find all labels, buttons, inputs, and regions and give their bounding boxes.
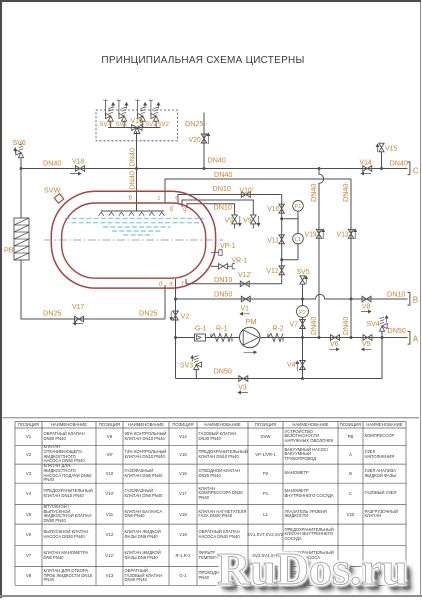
svg-text:DN40: DN40 xyxy=(127,171,136,189)
wire: second DN40 line from node c to V13 branch xyxy=(165,179,351,204)
valve V4 xyxy=(300,361,306,370)
svg-text:DN40: DN40 xyxy=(341,184,350,202)
svg-text:DN40: DN40 xyxy=(341,317,350,335)
valve V5 xyxy=(363,335,372,341)
svg-text:B: B xyxy=(413,296,418,305)
spray header inside tank xyxy=(101,210,164,212)
outer jacket burst device SVW xyxy=(54,194,64,204)
svg-text:DN40: DN40 xyxy=(208,156,226,165)
svg-text:P2: P2 xyxy=(299,310,306,316)
svg-text:SV6: SV6 xyxy=(13,140,26,147)
tank inner vessel xyxy=(62,203,206,278)
svg-text:V19: V19 xyxy=(305,232,317,239)
sheet border top xyxy=(0,0,421,2)
svg-text:SV2: SV2 xyxy=(145,122,157,128)
node A off-page connector xyxy=(408,332,410,345)
svg-text:V4: V4 xyxy=(287,362,296,369)
wire: DN50 sampling line V1 to node B xyxy=(176,294,408,299)
drawing title xyxy=(0,55,414,66)
svg-text:A: A xyxy=(413,335,419,344)
pressure gauge P1 xyxy=(293,201,304,212)
wire: P1/L1 instrument branch xyxy=(282,211,298,260)
svg-text:PB: PB xyxy=(4,246,14,255)
svg-text:DN10: DN10 xyxy=(214,203,232,212)
svg-text:V7: V7 xyxy=(290,322,299,329)
valve V13 xyxy=(348,229,354,238)
tank centerline xyxy=(44,239,223,241)
wire: node b dip tube into tank xyxy=(136,169,138,212)
svg-text:V8: V8 xyxy=(362,303,371,310)
svg-text:SV1: SV1 xyxy=(116,122,128,128)
svg-text:DN50: DN50 xyxy=(388,326,406,335)
vacuum valve VR-1 xyxy=(211,265,218,267)
sheet border left xyxy=(0,0,2,598)
svg-text:g: g xyxy=(183,207,186,213)
svg-text:DN50: DN50 xyxy=(214,366,232,375)
safety valve SV6 xyxy=(16,150,24,158)
svg-text:b: b xyxy=(129,195,133,201)
pump PM xyxy=(240,327,260,347)
svg-text:DN40: DN40 xyxy=(214,170,232,179)
svg-text:SV4: SV4 xyxy=(367,321,380,328)
valve V2 xyxy=(173,311,179,320)
wire: node gprime trycock line to V9prime xyxy=(182,200,253,215)
wire: P2/V7 gauge riser with SV5 stub xyxy=(302,284,304,379)
svg-text:DN25: DN25 xyxy=(43,309,61,318)
safety valve SV3 xyxy=(194,362,202,370)
svg-text:V3: V3 xyxy=(238,384,247,391)
svg-text:V12: V12 xyxy=(266,268,278,275)
svg-text:DN50: DN50 xyxy=(214,290,232,299)
safety valve SV2 xyxy=(142,121,144,127)
svg-text:DN40: DN40 xyxy=(309,317,318,335)
svg-text:DN10: DN10 xyxy=(214,275,232,284)
sheet border right xyxy=(420,2,421,597)
svg-text:V12': V12' xyxy=(238,272,252,279)
svg-text:V1: V1 xyxy=(241,306,250,313)
svg-text:DN40: DN40 xyxy=(309,184,318,202)
wire: V9 drain stub xyxy=(234,224,236,229)
svg-text:V20: V20 xyxy=(189,137,201,144)
svg-text:DN25: DN25 xyxy=(185,119,203,128)
svg-text:DN10: DN10 xyxy=(387,289,405,298)
safety valve SV1 xyxy=(123,121,125,127)
gauge valve V7 xyxy=(300,320,306,329)
valve V6 xyxy=(331,335,340,341)
svg-text:VP-1: VP-1 xyxy=(220,243,236,250)
svg-text:V10: V10 xyxy=(267,206,279,213)
svg-text:VR-1: VR-1 xyxy=(232,257,248,264)
svg-text:V18: V18 xyxy=(72,159,84,166)
valve V8 xyxy=(362,296,371,302)
svg-text:SVW: SVW xyxy=(44,186,61,195)
svg-text:V13: V13 xyxy=(337,232,349,239)
valve V12prime xyxy=(240,281,249,287)
valve V19 xyxy=(316,229,322,238)
separator line above table xyxy=(2,417,419,419)
svg-text:V5: V5 xyxy=(362,341,371,348)
svg-text:DN25: DN25 xyxy=(139,309,157,318)
svg-text:R-1: R-1 xyxy=(216,326,227,333)
svg-text:DN40: DN40 xyxy=(127,148,136,166)
safety valve V15 xyxy=(379,143,384,152)
wire: bottom bypass line xyxy=(176,338,383,379)
wire: pump suction/discharge header xyxy=(176,337,408,339)
svg-text:V9': V9' xyxy=(243,217,253,224)
svg-text:a: a xyxy=(169,281,173,287)
valve V20 xyxy=(201,134,207,143)
three-way valve V16 xyxy=(132,125,142,131)
svg-text:d: d xyxy=(159,281,162,287)
wire: node f liquid-phase line xyxy=(185,279,187,284)
svg-text:SV2': SV2' xyxy=(158,122,171,128)
wire: SV4 relief stub xyxy=(381,331,383,337)
svg-text:DN10: DN10 xyxy=(213,184,231,193)
node C off-page connector xyxy=(408,162,410,175)
safety valve SV2' xyxy=(155,121,157,127)
wire: node a pump suction drop leg xyxy=(175,279,177,379)
svg-text:V16: V16 xyxy=(131,118,143,125)
valve V17 xyxy=(75,316,84,322)
svg-text:V9: V9 xyxy=(225,217,234,224)
wire: SV3 relief stub xyxy=(195,369,197,379)
wire: main DN40 header xyxy=(21,168,408,170)
svg-text:e: e xyxy=(175,195,179,201)
valve V11 xyxy=(279,235,285,244)
vacuum port VP-1 xyxy=(211,250,222,256)
svg-text:G-1: G-1 xyxy=(195,326,207,333)
safety valve SVT xyxy=(110,121,112,127)
svg-text:V17: V17 xyxy=(72,304,84,311)
svg-text:SV5: SV5 xyxy=(297,269,310,276)
svg-text:SVT: SVT xyxy=(100,122,112,128)
flexible joint R-1 xyxy=(211,334,234,342)
svg-text:V6: V6 xyxy=(330,341,339,348)
svg-text:V15: V15 xyxy=(385,146,397,153)
table grid xyxy=(15,422,406,586)
wire: V13 drop leg xyxy=(350,179,352,338)
trycock valve V9 xyxy=(232,215,238,224)
wire: V15 relief stub xyxy=(381,152,383,169)
level gauge L1 xyxy=(293,233,304,244)
safety valve SV4 xyxy=(379,323,387,331)
strainer G-1 xyxy=(195,334,206,341)
wire: V9prime drain stub xyxy=(252,224,254,229)
wire: node g trycock line to V9 xyxy=(187,204,235,215)
wire: node d DN25 drop leg xyxy=(164,285,166,319)
check valve V1 xyxy=(241,296,250,302)
wire: relief manifold xyxy=(108,127,161,129)
wire: node e gauge line to V10prime xyxy=(178,195,282,205)
svg-text:V14: V14 xyxy=(360,160,372,167)
dashed enclosure of tank relief valve group xyxy=(96,110,177,141)
svg-text:SV3: SV3 xyxy=(180,363,193,370)
svg-text:g': g' xyxy=(170,206,174,212)
trycock valve V9prime xyxy=(251,215,257,224)
tank outer jacket xyxy=(51,191,215,288)
svg-text:V2: V2 xyxy=(181,313,190,320)
svg-text:L1: L1 xyxy=(295,237,301,243)
wire: gauge column V10-V11-V12 xyxy=(281,195,283,284)
compressor PB hatched box xyxy=(14,218,29,260)
flexible joint R-2 xyxy=(268,334,285,342)
valve V10 xyxy=(279,204,285,213)
svg-text:R-2: R-2 xyxy=(273,326,284,333)
watermark RuDos.ru xyxy=(217,546,407,592)
node B off-page connector xyxy=(408,293,410,306)
wire: V16 riser from main header to relief manifold xyxy=(136,132,138,169)
svg-text:DN40: DN40 xyxy=(390,159,408,168)
wire: left vertical SV6/PB/V17 riser xyxy=(21,158,165,320)
sheet border bottom xyxy=(0,595,422,598)
svg-text:c: c xyxy=(158,196,161,202)
valve V12 xyxy=(279,266,285,275)
valve V3 xyxy=(239,376,248,382)
valve V10prime xyxy=(241,192,250,198)
svg-text:V11: V11 xyxy=(267,237,279,244)
valve V18 xyxy=(76,166,85,172)
svg-text:PM: PM xyxy=(246,317,257,326)
valve V14 xyxy=(363,166,372,172)
svg-text:V10': V10' xyxy=(240,187,254,194)
svg-text:C: C xyxy=(413,167,419,176)
safety valve SV5 xyxy=(300,276,305,284)
liquid level dashes xyxy=(65,217,204,219)
wire: V19 gas-phase drop leg with crossover hop xyxy=(319,169,324,338)
pressure gauge P2 xyxy=(297,306,309,318)
svg-text:DN40: DN40 xyxy=(43,159,61,168)
wire: V20 vent riser xyxy=(203,113,205,169)
svg-text:P1: P1 xyxy=(295,204,302,210)
